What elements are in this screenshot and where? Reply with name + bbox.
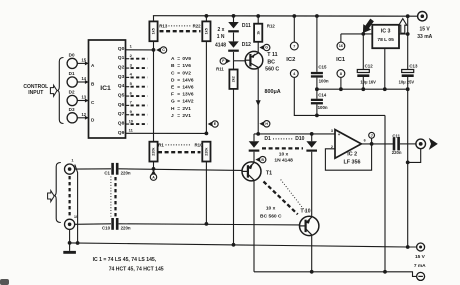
node junction pin8/ground rail (339, 87, 343, 91)
wire IC3 ground pin (384, 48, 386, 89)
svg-text:A: A (171, 56, 175, 62)
ground (63, 243, 76, 254)
wire Q9 output to R10 node (126, 132, 207, 134)
wire Q1 dashed stub (126, 58, 148, 60)
node junction IC3/ground rail (383, 87, 387, 91)
wire R11 to ground bus (233, 89, 235, 245)
wire dashed C2-C9 indicator (114, 177, 116, 217)
svg-text:Q3: Q3 (118, 74, 125, 80)
svg-text:C10: C10 (102, 225, 111, 230)
wire Q2 dashed stub (126, 67, 148, 69)
svg-text:1k5: 1k5 (205, 28, 209, 34)
node B test point (255, 156, 266, 162)
wire Q8 dashed stub (126, 123, 148, 125)
svg-text:15 V: 15 V (415, 254, 426, 260)
control input arrow (50, 85, 57, 96)
wire T11 collector to node H (257, 68, 259, 133)
svg-text:2 x: 2 x (218, 27, 225, 33)
wire Q4 dashed stub (126, 86, 148, 88)
label voltage table A-J (171, 56, 194, 119)
svg-text:4148: 4148 (215, 42, 226, 48)
svg-text:78 L 05: 78 L 05 (377, 37, 394, 43)
svg-text:1N 4148: 1N 4148 (274, 157, 293, 163)
wire dotted D2-D9 indicator (281, 180, 306, 212)
node junction C15/ground rail (315, 87, 319, 91)
wire C1 to T1 base node A (119, 169, 242, 171)
node junction A R1/C1 (152, 167, 156, 171)
wire C11 to output terminal (400, 143, 416, 145)
label 15V 33mA (417, 26, 432, 40)
diode D12 (228, 41, 251, 51)
label D1...D10 group (262, 139, 303, 149)
svg-text:F: F (171, 92, 174, 98)
node F test point (220, 58, 231, 64)
svg-text:C14: C14 (318, 93, 327, 98)
wire Q7 dashed stub (126, 114, 148, 116)
svg-text:D0: D0 (69, 53, 75, 58)
wire IC2 output (361, 143, 393, 145)
node IC1 pin 16 (337, 42, 345, 50)
wire D2 to IC1 pin 13 (77, 95, 88, 103)
node A test point (150, 170, 156, 181)
svg-text:B: B (171, 63, 175, 69)
svg-text:C1: C1 (104, 170, 110, 175)
svg-text:R12: R12 (267, 23, 275, 28)
node IC2 pin 7 (290, 42, 298, 50)
svg-text:IC 1 = 74 LS 45, 74 LS 145,: IC 1 = 74 LS 45, 74 LS 145, (93, 257, 157, 263)
node IC1 pin 8 (337, 70, 345, 78)
svg-text:560 C: 560 C (265, 67, 279, 73)
wire diode anode bus to IC2 pin3 (254, 133, 335, 135)
label 2x 1N4148 (215, 27, 226, 48)
wire IC2 pin4 to -15V line (294, 77, 385, 115)
wire Q5 dashed stub (126, 95, 148, 97)
svg-text:2k2: 2k2 (232, 76, 236, 82)
svg-text:14V6: 14V6 (182, 77, 194, 83)
svg-text:10 x: 10 x (279, 152, 289, 158)
wire IC2 feedback loop (325, 144, 371, 170)
svg-text:7 mA: 7 mA (414, 263, 426, 269)
wire D1 to T1 emitter (253, 152, 255, 163)
node junction output/feedback (370, 142, 374, 146)
svg-text:D1: D1 (69, 71, 75, 76)
svg-text:D3: D3 (69, 107, 75, 112)
svg-text:220n: 220n (392, 150, 402, 155)
svg-text:R1: R1 (158, 142, 164, 147)
svg-text:C: C (162, 48, 165, 52)
svg-text:74 HCT 45, 74 HCT 145: 74 HCT 45, 74 HCT 145 (109, 267, 164, 273)
svg-text:6: 6 (364, 139, 366, 143)
svg-text:BC: BC (267, 59, 275, 65)
svg-text:G: G (171, 99, 175, 105)
svg-text:Q9: Q9 (118, 130, 125, 136)
svg-text:H: H (171, 106, 175, 112)
svg-text:D1: D1 (264, 136, 271, 142)
svg-text:Q4: Q4 (118, 83, 125, 89)
svg-text:=: = (177, 100, 180, 105)
wire output terminal return (408, 149, 421, 163)
svg-text:100n: 100n (319, 79, 329, 84)
svg-text:INPUT: INPUT (28, 90, 43, 96)
wire Q0 output to R13 node (126, 49, 154, 51)
svg-text:15: 15 (82, 57, 87, 62)
wire terminal1 to C1 (75, 168, 111, 170)
svg-text:T 10: T 10 (300, 209, 310, 215)
svg-text:2V1: 2V1 (182, 113, 191, 119)
node input terminal 1 (65, 158, 75, 175)
svg-text:13: 13 (82, 95, 87, 100)
node junction -15V bus (383, 270, 387, 274)
label IC1 supply (336, 57, 346, 63)
svg-text:220n: 220n (121, 170, 131, 175)
svg-text:800μA: 800μA (265, 89, 281, 95)
wire dotted C2-C9 indicator (110, 177, 112, 217)
svg-text:=: = (177, 93, 180, 98)
input brace (54, 163, 61, 223)
node junction terminal10/ground (68, 241, 72, 245)
svg-text:Q6: Q6 (118, 102, 125, 108)
node D3 control input terminal (67, 107, 77, 123)
node junction return/ground line (406, 161, 410, 165)
wire R22 to Q9 junction (205, 41, 207, 133)
resistor R11 (216, 61, 237, 89)
node junction C14/-15V line (315, 114, 319, 118)
svg-text:14V6: 14V6 (182, 85, 194, 91)
wire R12 to T11 emitter (257, 42, 259, 53)
svg-text:Q7: Q7 (118, 111, 125, 117)
capacitor C1 (104, 163, 131, 175)
capacitor C10 (102, 218, 131, 230)
wire T10 collector to -15V bus (311, 235, 313, 271)
node junction rail/IC2 pin7 (292, 14, 296, 18)
node G test point (259, 44, 270, 50)
node junction C12/ground rail (361, 87, 365, 91)
node input terminal 10 (65, 214, 79, 230)
svg-text:C: C (171, 70, 175, 76)
node junction rail/R12 (256, 14, 260, 18)
wire -15V bottom bus (254, 272, 417, 277)
svg-text:15 V: 15 V (419, 26, 430, 32)
svg-text:IC1: IC1 (100, 85, 111, 92)
svg-text:Q1: Q1 (118, 55, 125, 61)
svg-text:J: J (171, 113, 174, 119)
label R13...R22 group (159, 23, 201, 31)
wire D1 to IC1 pin 14 (77, 76, 88, 84)
svg-text:0V2: 0V2 (182, 70, 191, 76)
svg-text:10 x: 10 x (266, 206, 276, 212)
wire R13 to Q0 to R1 (153, 41, 155, 142)
wire -15V feed down (384, 115, 386, 271)
wire rail to IC2 pin7 (293, 16, 295, 42)
svg-text:A: A (152, 175, 155, 179)
svg-text:1 N: 1 N (217, 34, 225, 40)
svg-text:+: + (338, 132, 341, 137)
svg-text:Q5: Q5 (118, 93, 125, 99)
svg-text:R11: R11 (216, 67, 224, 72)
svg-text:1k5: 1k5 (152, 28, 156, 34)
svg-text:B: B (261, 158, 264, 162)
svg-text:R22: R22 (193, 24, 202, 29)
resistor R1 (149, 142, 157, 169)
svg-text:BC 560 C: BC 560 C (260, 214, 282, 220)
svg-text:C11: C11 (392, 133, 400, 138)
svg-text:=: = (177, 86, 180, 91)
svg-text:G: G (265, 46, 268, 50)
smudge (0, 279, 9, 285)
node junction Q9/R22/R10 (205, 132, 209, 136)
wire IC1 pin8 to ground rail (340, 77, 342, 89)
node junction 5V/C12 (361, 32, 365, 36)
node E test point (208, 121, 219, 127)
label 15V 7mA (414, 254, 426, 269)
diode D11 (228, 16, 251, 33)
svg-text:=: = (177, 57, 180, 62)
transistor T10 (300, 209, 319, 236)
svg-text:220n: 220n (121, 225, 131, 230)
label IC1 type footnote (93, 257, 164, 273)
label R1...R10 group (158, 142, 203, 152)
svg-text:2V1: 2V1 (182, 106, 191, 112)
capacitor C11 (392, 133, 402, 155)
capacitor C13 (399, 34, 418, 89)
wire IC3 input from +15V (399, 16, 408, 34)
svg-text:Q8: Q8 (118, 121, 125, 127)
svg-text:33 mA: 33 mA (417, 34, 432, 40)
wire D12 to node F (233, 52, 235, 61)
capacitor C14 (311, 89, 328, 115)
svg-text:T1: T1 (266, 170, 272, 176)
node junction T11 collector/bus (256, 132, 260, 136)
wire D0 to IC1 pin 15 (77, 57, 88, 65)
diode D10 (295, 134, 317, 152)
node junction rail/C13 (406, 14, 410, 18)
wire ground bus (70, 243, 417, 247)
svg-text:Q0: Q0 (118, 46, 125, 52)
label 10x BC560C (260, 206, 282, 220)
control input brace (57, 58, 63, 124)
wire R10 down to C10 node (205, 162, 207, 224)
wire 0V ground rail (317, 88, 408, 90)
svg-text:0V9: 0V9 (182, 56, 191, 62)
node H test point (259, 121, 270, 127)
wire T1 collector to -15V bus (253, 181, 255, 272)
svg-text:J: J (371, 134, 373, 138)
node junction D10/bus (310, 132, 314, 136)
svg-text:3: 3 (331, 129, 333, 133)
diode D1 (249, 134, 271, 152)
node junction rail/D11 (232, 14, 236, 18)
svg-text:LF 356: LF 356 (343, 160, 360, 166)
svg-text:14V2: 14V2 (182, 99, 194, 105)
input arrow (48, 191, 55, 202)
node junction R11/ground bus (232, 243, 236, 247)
node junction C13/ground rail (406, 87, 410, 91)
label 10x 1N4148 (274, 152, 293, 164)
svg-text:IC1: IC1 (336, 57, 346, 63)
node D2 control input terminal (67, 90, 77, 106)
svg-text:D11: D11 (242, 23, 251, 29)
label 800uA current arrow (256, 89, 281, 106)
wire dashed T2-T9 indicator (264, 182, 298, 215)
node C test point (156, 47, 167, 53)
node D0 control input terminal (67, 53, 77, 69)
svg-text:R13: R13 (159, 23, 168, 28)
wire 5V line IC3 out (341, 33, 372, 35)
node -15V terminal (417, 272, 425, 280)
node output terminal (416, 139, 426, 149)
svg-text:D: D (171, 77, 175, 83)
svg-text:14: 14 (82, 76, 87, 81)
svg-text:12: 12 (82, 112, 87, 117)
svg-text:13V6: 13V6 (182, 92, 194, 98)
node junction R10/C10 (205, 222, 209, 226)
svg-text:Q2: Q2 (118, 65, 125, 71)
svg-text:D12: D12 (242, 42, 251, 48)
op-amp IC3 regulator 78L05 (372, 25, 399, 48)
svg-text:220k: 220k (152, 147, 156, 156)
svg-text:IC2: IC2 (286, 57, 295, 63)
output arrow (429, 138, 438, 150)
resistor R10 (202, 142, 210, 162)
op-amp IC1 decoder 74LS45 body (89, 40, 126, 138)
node J test point (369, 132, 375, 143)
wire Q3 dashed stub (126, 76, 148, 78)
wire ground rail down to 0V terminal (407, 89, 409, 247)
node junction ground/0V terminal (406, 245, 410, 249)
svg-text:10: 10 (129, 118, 134, 123)
IC3 output arrow (359, 17, 376, 36)
wire connector shield (75, 165, 78, 243)
svg-text:D2: D2 (69, 90, 75, 95)
resistor R22 (202, 16, 210, 41)
svg-text:IC 3: IC 3 (381, 28, 391, 34)
svg-text:100n: 100n (318, 105, 328, 110)
node D1 control input terminal (67, 71, 77, 87)
wire D10 to T10 emitter (311, 152, 313, 217)
IC3 input arrow (399, 19, 407, 34)
node junction C13 top (406, 32, 410, 36)
svg-text:=: = (177, 64, 180, 69)
wire terminal10 to C10 (75, 223, 111, 226)
svg-text:C13: C13 (409, 64, 418, 69)
op-amp IC2 LF356 (331, 129, 366, 166)
svg-text:C12: C12 (365, 64, 374, 69)
svg-text:R10: R10 (194, 142, 203, 147)
wire node F to T11 base (234, 60, 245, 62)
svg-text:=: = (177, 78, 180, 83)
svg-text:=: = (177, 107, 180, 112)
node junction rail/C15 (315, 14, 319, 18)
wire C10 to T10 base (119, 224, 300, 225)
node junction rail/R22 (205, 14, 209, 18)
node IC2 pin 4 (290, 70, 298, 78)
wire D11 to D12 (233, 33, 235, 42)
svg-text:IC 2: IC 2 (347, 152, 357, 158)
resistor R12 (254, 16, 275, 42)
wire dashed terminals 2-9 indicator (68, 176, 70, 218)
node junction T10/-15V bus (310, 270, 314, 274)
label IC2 supply (286, 57, 295, 63)
wire D3 to IC1 pin 12 (77, 112, 88, 120)
svg-text:=: = (177, 71, 180, 76)
node junction shield/ground (76, 241, 80, 245)
wire terminal10 to ground bus (69, 229, 71, 243)
wire +15V top supply rail (153, 15, 418, 18)
wire Q6 dashed stub (126, 104, 148, 106)
transistor T1 (242, 162, 272, 181)
node 0V terminal (417, 243, 425, 251)
transistor T11 (245, 51, 279, 72)
svg-text:T 11: T 11 (267, 52, 277, 58)
node +15V terminal (418, 12, 427, 21)
IC1 output pin labels Q0-Q9 (118, 44, 134, 136)
svg-text:1V6: 1V6 (182, 63, 191, 69)
node junction Q0/R13 (152, 48, 156, 52)
control input label (23, 84, 48, 96)
capacitor C12 (357, 34, 376, 89)
svg-text:D10: D10 (295, 136, 304, 142)
svg-text:16: 16 (339, 44, 343, 48)
wire IC1 pin16 to 5V line (340, 34, 342, 42)
svg-text:10μ 25V: 10μ 25V (399, 80, 415, 85)
svg-text:220k: 220k (205, 147, 209, 156)
resistor R13 (149, 16, 157, 41)
svg-text:=: = (177, 114, 180, 119)
svg-text:C15: C15 (318, 65, 327, 70)
capacitor C15 (311, 16, 329, 89)
svg-text:H: H (265, 122, 268, 126)
